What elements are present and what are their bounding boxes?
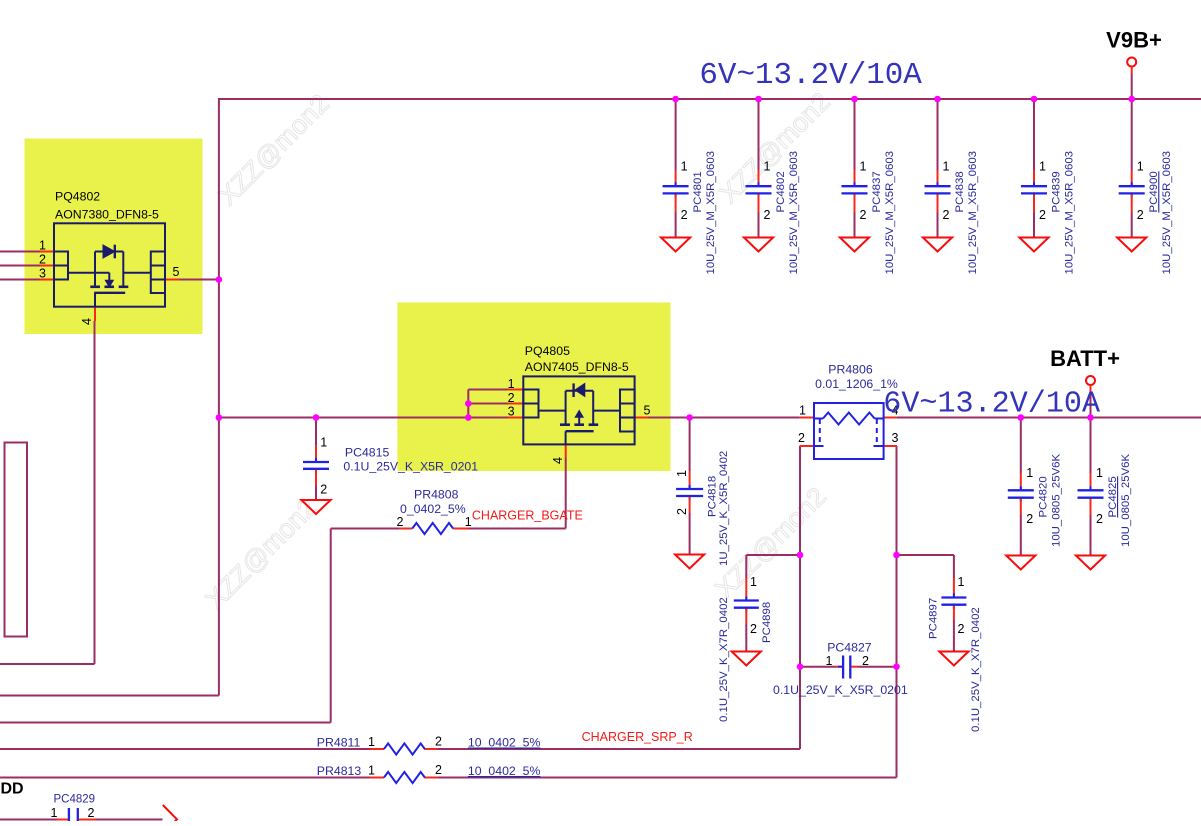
svg-text:PC4827: PC4827 <box>827 641 872 655</box>
svg-text:PC4839: PC4839 <box>1051 171 1063 212</box>
svg-text:1: 1 <box>750 575 757 589</box>
svg-text:1U_25V_K_X5R_0402: 1U_25V_K_X5R_0402 <box>718 451 730 566</box>
svg-text:PC4898: PC4898 <box>761 602 773 643</box>
svg-text:0.1U_25V_K_X7R_0402: 0.1U_25V_K_X7R_0402 <box>718 597 730 722</box>
svg-text:5: 5 <box>173 265 180 279</box>
svg-text:PC4829: PC4829 <box>54 793 96 805</box>
svg-text:2: 2 <box>1137 208 1144 222</box>
svg-text:PR4813: PR4813 <box>317 764 362 778</box>
svg-text:2: 2 <box>943 208 950 222</box>
svg-text:1: 1 <box>39 239 46 253</box>
svg-text:1: 1 <box>368 735 375 749</box>
svg-text:2: 2 <box>39 253 46 267</box>
svg-text:2: 2 <box>1039 208 1046 222</box>
svg-text:V9B+: V9B+ <box>1106 27 1162 52</box>
svg-text:1: 1 <box>1137 160 1144 174</box>
svg-text:PQ4805: PQ4805 <box>525 344 570 358</box>
svg-text:3: 3 <box>892 431 899 445</box>
svg-text:DD: DD <box>1 781 24 798</box>
svg-text:2: 2 <box>1026 512 1033 526</box>
svg-text:1: 1 <box>51 806 58 820</box>
svg-text:1: 1 <box>465 515 472 529</box>
svg-text:BATT+: BATT+ <box>1050 346 1120 371</box>
svg-text:PC4818: PC4818 <box>707 476 719 517</box>
svg-text:1: 1 <box>764 160 771 174</box>
svg-text:AON7405_DFN8-5: AON7405_DFN8-5 <box>525 360 629 374</box>
svg-text:CHARGER_SRP_R: CHARGER_SRP_R <box>582 730 693 744</box>
svg-text:2: 2 <box>508 391 515 405</box>
svg-text:0_0402_5%: 0_0402_5% <box>400 502 466 516</box>
svg-text:PC4815: PC4815 <box>345 446 390 460</box>
svg-text:PR4806: PR4806 <box>828 363 873 377</box>
svg-text:2: 2 <box>435 735 442 749</box>
svg-text:2: 2 <box>798 431 805 445</box>
svg-text:10_0402_5%: 10_0402_5% <box>468 764 541 778</box>
svg-text:10U_25V_M_X5R_0603: 10U_25V_M_X5R_0603 <box>788 151 800 275</box>
svg-text:6V~13.2V/10A: 6V~13.2V/10A <box>699 58 922 93</box>
svg-text:PC4897: PC4897 <box>928 598 940 639</box>
svg-text:PC4820: PC4820 <box>1037 476 1049 517</box>
svg-text:AON7380_DFN8-5: AON7380_DFN8-5 <box>55 208 159 222</box>
svg-text:2: 2 <box>396 515 403 529</box>
svg-text:10U_25V_M_X5R_0603: 10U_25V_M_X5R_0603 <box>884 151 896 275</box>
svg-text:2: 2 <box>958 622 965 636</box>
svg-text:0.1U_25V_K_X7R_0402: 0.1U_25V_K_X7R_0402 <box>970 607 982 732</box>
svg-text:1: 1 <box>943 160 950 174</box>
svg-text:10U_0805_25V6K: 10U_0805_25V6K <box>1120 453 1132 547</box>
svg-text:2: 2 <box>681 208 688 222</box>
svg-text:1: 1 <box>1026 466 1033 480</box>
svg-text:1: 1 <box>675 470 689 477</box>
svg-text:2: 2 <box>862 654 869 668</box>
svg-text:5: 5 <box>644 404 651 418</box>
svg-text:2: 2 <box>435 763 442 777</box>
svg-text:4: 4 <box>80 318 94 325</box>
svg-text:PQ4802: PQ4802 <box>55 190 100 204</box>
svg-text:PC4802: PC4802 <box>775 171 787 212</box>
svg-text:1: 1 <box>1096 466 1103 480</box>
svg-text:10U_25V_M_X5R_0603: 10U_25V_M_X5R_0603 <box>967 151 979 275</box>
svg-text:2: 2 <box>320 483 327 497</box>
svg-text:1: 1 <box>368 764 375 778</box>
svg-text:1: 1 <box>799 404 806 418</box>
svg-text:PC4801: PC4801 <box>692 171 704 212</box>
svg-text:0.1U_25V_K_X5R_0201: 0.1U_25V_K_X5R_0201 <box>343 460 478 474</box>
svg-text:0.1U_25V_K_X5R_0201: 0.1U_25V_K_X5R_0201 <box>773 683 908 697</box>
svg-text:2: 2 <box>675 508 689 515</box>
svg-text:2: 2 <box>750 622 757 636</box>
svg-text:1: 1 <box>681 160 688 174</box>
svg-text:10U_25V_M_X5R_0603: 10U_25V_M_X5R_0603 <box>705 151 717 275</box>
svg-text:PC4825: PC4825 <box>1107 476 1119 517</box>
svg-text:10U_25V_M_X5R_0603: 10U_25V_M_X5R_0603 <box>1064 151 1076 275</box>
svg-text:1: 1 <box>860 160 867 174</box>
svg-text:CHARGER_BGATE: CHARGER_BGATE <box>472 509 583 523</box>
svg-text:10U_0805_25V6K: 10U_0805_25V6K <box>1050 453 1062 547</box>
svg-text:1: 1 <box>1039 160 1046 174</box>
svg-text:4: 4 <box>551 457 565 464</box>
svg-text:1: 1 <box>958 575 965 589</box>
svg-text:2: 2 <box>764 208 771 222</box>
svg-text:PC4900: PC4900 <box>1148 171 1160 212</box>
svg-text:PC4838: PC4838 <box>954 171 966 212</box>
svg-text:PR4811: PR4811 <box>317 736 361 750</box>
svg-text:2: 2 <box>860 208 867 222</box>
svg-text:3: 3 <box>508 405 515 419</box>
svg-text:2: 2 <box>1096 512 1103 526</box>
svg-text:1: 1 <box>508 377 515 391</box>
svg-text:3: 3 <box>39 267 46 281</box>
svg-text:PR4808: PR4808 <box>414 488 459 502</box>
svg-text:1: 1 <box>320 436 327 450</box>
svg-text:PC4837: PC4837 <box>871 171 883 212</box>
svg-text:10U_25V_M_X5R_0603: 10U_25V_M_X5R_0603 <box>1161 151 1173 275</box>
svg-text:1: 1 <box>826 654 833 668</box>
svg-text:2: 2 <box>88 806 95 820</box>
svg-text:6V~13.2V/10A: 6V~13.2V/10A <box>883 387 1101 421</box>
svg-text:10_0402_5%: 10_0402_5% <box>468 736 541 750</box>
